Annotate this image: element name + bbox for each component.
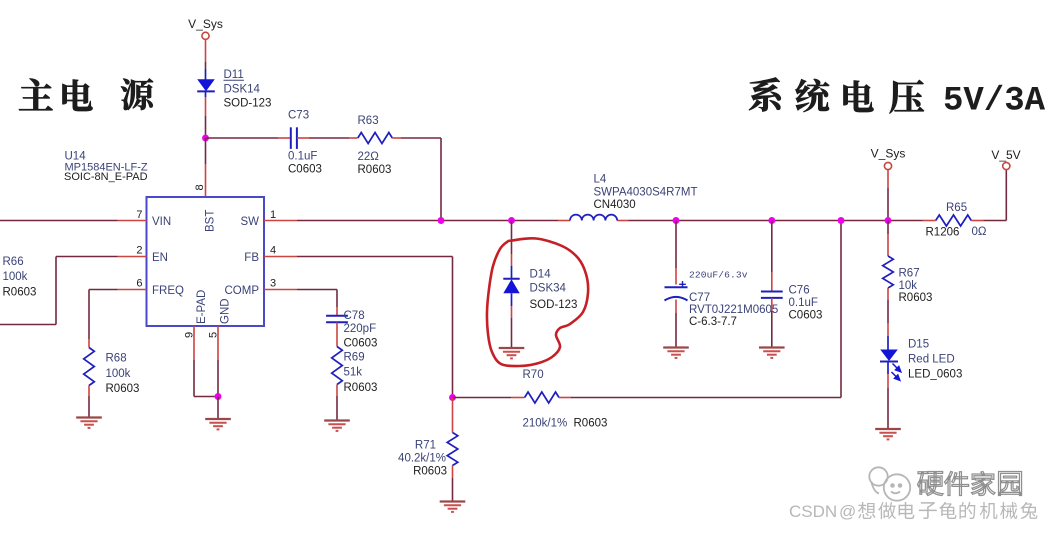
title 系统电压 5V/3A (system voltage) <box>749 77 1046 120</box>
svg-text:2: 2 <box>136 245 142 257</box>
ground (R68) <box>76 418 102 428</box>
svg-text:R69: R69 <box>344 352 365 364</box>
wire FB to divider <box>297 257 453 398</box>
svg-text:R67: R67 <box>899 268 920 280</box>
node R70/rail junction <box>838 217 845 224</box>
svg-text:SWPA4030S4R7MT: SWPA4030S4R7MT <box>594 187 698 199</box>
svg-text:0.1uF: 0.1uF <box>789 297 818 309</box>
svg-text:100k: 100k <box>106 368 131 380</box>
power flag V_Sys (top) <box>188 17 223 39</box>
svg-text:R0603: R0603 <box>358 164 392 176</box>
watermark 硬件家园 <box>917 471 1021 495</box>
svg-text:R1206: R1206 <box>926 227 960 239</box>
power flag V_Sys (right) <box>871 147 906 221</box>
svg-text:D11: D11 <box>224 69 244 81</box>
svg-text:5V/3A: 5V/3A <box>943 83 1046 121</box>
ground (U14 GND/E-PAD) <box>205 419 231 429</box>
svg-text:R70: R70 <box>523 369 544 381</box>
node C76 junction <box>768 217 775 224</box>
node D14 junction <box>508 217 515 224</box>
svg-text:V_Sys: V_Sys <box>871 147 906 161</box>
resistor R67 10k R0603 <box>883 256 933 304</box>
wire rail to C77 <box>675 221 677 285</box>
svg-text:100k: 100k <box>3 271 28 283</box>
resistor R66 100k R0603 (labels at left edge) <box>3 256 37 299</box>
wire C73 to R63 <box>297 137 358 139</box>
svg-text:R71: R71 <box>415 440 436 452</box>
wire C78 to R69 <box>336 323 338 347</box>
ground (D14) <box>499 348 525 358</box>
annotation red circle around D14 <box>487 238 588 366</box>
node SW/R63 junction <box>438 217 445 224</box>
pin 4 FB <box>244 245 297 265</box>
resistor R69 51k R0603 <box>332 347 378 395</box>
svg-text:40.2k/1%: 40.2k/1% <box>398 453 446 465</box>
wire E-PAD to GND net <box>194 360 218 397</box>
svg-text:C77: C77 <box>689 292 710 304</box>
svg-text:R63: R63 <box>358 115 379 127</box>
ground (C78/R69) <box>324 421 350 431</box>
inductor L4 SWPA4030S4R7MT CN4030 <box>570 174 697 221</box>
resistor R70 210k/1% R0603 <box>523 369 608 430</box>
svg-text:7: 7 <box>136 209 142 221</box>
svg-text:R0603: R0603 <box>106 383 140 395</box>
svg-text:9: 9 <box>184 332 196 338</box>
wire R70 to output rail <box>559 221 841 398</box>
wire BST node to C73 <box>206 137 291 139</box>
wire VIN from left edge <box>0 220 118 222</box>
svg-text:D15: D15 <box>908 339 929 351</box>
svg-text:C0603: C0603 <box>789 310 823 322</box>
svg-text:EN: EN <box>152 252 168 264</box>
wire R71 to ground <box>452 466 454 502</box>
svg-text:GND: GND <box>220 298 232 324</box>
svg-text:E-PAD: E-PAD <box>196 290 208 324</box>
pin 7 VIN <box>118 209 172 228</box>
resistor R65 R1206 0R <box>923 202 987 239</box>
svg-text:@: @ <box>839 502 856 521</box>
wire R69 to ground <box>336 385 338 421</box>
svg-text:C76: C76 <box>789 285 810 297</box>
svg-text:4: 4 <box>270 245 276 257</box>
op-amp U14 MP1584EN-LF-Z body <box>64 151 264 327</box>
svg-text:DSK34: DSK34 <box>530 283 567 295</box>
svg-text:SOD-123: SOD-123 <box>530 299 578 311</box>
svg-text:SW: SW <box>240 216 259 228</box>
svg-text:CSDN: CSDN <box>789 502 837 521</box>
svg-text:COMP: COMP <box>225 285 260 297</box>
svg-text:R65: R65 <box>946 202 967 214</box>
wire SW output rail <box>297 220 923 222</box>
wire EN to left edge <box>0 257 118 325</box>
capacitor C76 0.1uF C0603 <box>761 285 822 322</box>
svg-text:22Ω: 22Ω <box>358 151 380 163</box>
pin 9 E-PAD <box>184 290 209 360</box>
wire junction to R70 <box>453 397 525 399</box>
svg-text:8: 8 <box>194 184 206 190</box>
diode D11 DSK14 SOD-123 <box>197 69 271 110</box>
svg-text:10k: 10k <box>899 280 918 292</box>
resistor R63 22R R0603 <box>358 115 393 176</box>
svg-text:BST: BST <box>205 210 217 232</box>
svg-text:0.1uF: 0.1uF <box>288 151 317 163</box>
svg-text:V_Sys: V_Sys <box>188 17 223 31</box>
svg-text:L4: L4 <box>594 174 607 186</box>
ground (D15) <box>875 429 901 439</box>
svg-text:FB: FB <box>244 252 259 264</box>
ground (R71) <box>440 502 466 512</box>
svg-text:0Ω: 0Ω <box>972 226 987 238</box>
wire FREQ to R68 <box>89 290 118 348</box>
svg-text:CN4030: CN4030 <box>594 199 636 211</box>
wire C76 to ground <box>771 298 773 347</box>
svg-text:3: 3 <box>270 278 276 290</box>
wire D14 anode to ground <box>511 306 513 348</box>
node BST junction <box>202 135 209 142</box>
svg-text:R0603: R0603 <box>344 382 378 394</box>
svg-text:6: 6 <box>136 278 142 290</box>
svg-text:R0603: R0603 <box>574 418 608 430</box>
node E-PAD/GND junction <box>215 393 222 400</box>
svg-text:C0603: C0603 <box>288 164 322 176</box>
LED D15 Red LED LED_0603 <box>880 336 962 381</box>
pin 1 SW <box>240 209 297 228</box>
wire rail to C76 <box>771 221 773 292</box>
wire R68 to ground <box>88 386 90 418</box>
svg-text:220pF: 220pF <box>344 323 377 335</box>
power flag V_5V <box>983 148 1020 221</box>
wire BST node down to pin 8 <box>205 138 207 197</box>
ground (C76) <box>759 348 785 358</box>
svg-text:C0603: C0603 <box>344 338 378 350</box>
node FB divider junction <box>449 394 456 401</box>
wire junction to R71 <box>452 398 454 433</box>
svg-text:D14: D14 <box>530 269 552 281</box>
title 主电源 (main power) <box>19 79 153 112</box>
svg-text:FREQ: FREQ <box>152 285 184 297</box>
resistor R71 40.2k/1% R0603 <box>398 433 458 478</box>
svg-text:R0603: R0603 <box>3 287 37 299</box>
diode D14 DSK34 SOD-123 <box>503 266 577 311</box>
pin 6 FREQ <box>118 278 185 298</box>
node V_Sys/R67 junction <box>885 217 892 224</box>
svg-text:VIN: VIN <box>152 216 171 228</box>
svg-text:R0603: R0603 <box>899 292 933 304</box>
capacitor C78 220pF C0603 <box>326 310 377 350</box>
watermark logo circles <box>869 467 910 500</box>
svg-text:R66: R66 <box>3 256 24 268</box>
pin 8 BST label <box>194 184 217 232</box>
wire D11 cathode to BST node <box>205 97 207 138</box>
watermark CSDN @想做电子龟的机械兔 <box>789 502 1037 521</box>
wire COMP to C78 <box>297 290 337 316</box>
pin 5 GND <box>208 298 232 360</box>
pin 3 COMP <box>225 278 298 298</box>
svg-text:1: 1 <box>270 209 276 221</box>
node C77 junction <box>673 217 680 224</box>
pin 2 EN <box>118 245 168 265</box>
svg-text:C73: C73 <box>288 110 309 122</box>
wire D15 to ground <box>887 374 889 429</box>
svg-text:210k/1%: 210k/1% <box>523 418 568 430</box>
wire R67 to D15 <box>887 288 889 336</box>
svg-text:SOIC-8N_E-PAD: SOIC-8N_E-PAD <box>64 171 148 183</box>
wire D14 cathode up to rail <box>511 221 513 267</box>
svg-text:DSK14: DSK14 <box>224 84 261 96</box>
svg-text:V_5V: V_5V <box>991 148 1020 162</box>
wire GND junction to ground <box>217 397 219 419</box>
svg-text:R68: R68 <box>106 353 127 365</box>
wire R63 to SW node <box>392 138 441 221</box>
resistor R68 100k R0603 <box>84 348 140 396</box>
svg-text:220uF/6.3v: 220uF/6.3v <box>689 270 748 281</box>
svg-text:R0603: R0603 <box>413 466 447 478</box>
svg-text:C78: C78 <box>344 310 365 322</box>
svg-text:51k: 51k <box>344 367 363 379</box>
wire junction to R67 <box>887 221 889 257</box>
svg-text:5: 5 <box>208 332 220 338</box>
capacitor C73 0.1uF C0603 <box>288 110 322 176</box>
ground (C77) <box>663 348 689 358</box>
svg-text:C-6.3-7.7: C-6.3-7.7 <box>689 316 737 328</box>
wire C77 to ground <box>675 300 677 348</box>
svg-text:Red LED: Red LED <box>908 354 955 366</box>
svg-text:SOD-123: SOD-123 <box>224 98 272 110</box>
wire V_Sys to D11 anode <box>205 39 207 69</box>
svg-text:LED_0603: LED_0603 <box>908 369 962 381</box>
capacitor C77 220uF/6.3v RVT0J221M0605 <box>665 270 779 329</box>
svg-text:RVT0J221M0605: RVT0J221M0605 <box>689 304 778 316</box>
